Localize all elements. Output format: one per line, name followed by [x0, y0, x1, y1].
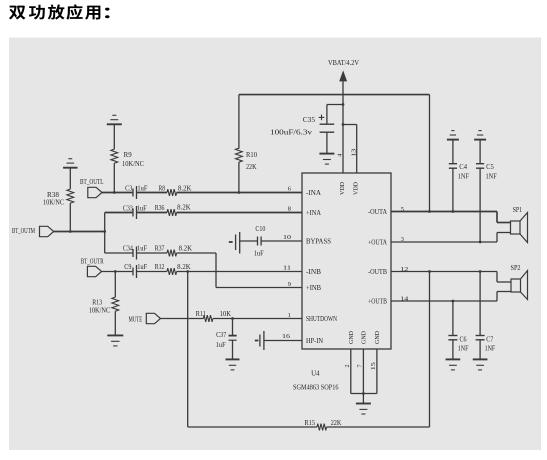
- svg-text:10: 10: [283, 234, 291, 241]
- op-amp U4 SGM4863 SOP16: [302, 173, 391, 349]
- node VBAT-C35 junction: [342, 103, 345, 106]
- resistor R12 8.2K: [167, 268, 177, 275]
- svg-text:R15: R15: [304, 420, 315, 427]
- wire to pin 16: [264, 340, 302, 342]
- wire bypass: [240, 240, 258, 242]
- wire +OUTA row: [391, 241, 497, 243]
- svg-text:1uF: 1uF: [137, 185, 147, 192]
- svg-text:VDD: VDD: [339, 182, 346, 195]
- wire feedback rail R10 to -OUTA: [239, 94, 430, 96]
- wire to pin 13: [343, 124, 357, 126]
- node R38 junction: [69, 230, 72, 233]
- svg-text:8.2K: 8.2K: [179, 245, 193, 252]
- svg-text:BT_OUTR: BT_OUTR: [81, 259, 104, 266]
- wire GND bus: [351, 393, 377, 395]
- node rail to -OUTA: [428, 210, 431, 213]
- svg-text:10K/NC: 10K/NC: [89, 308, 111, 315]
- wire MUTE row: [161, 318, 204, 320]
- resistor R36 8.2K: [167, 209, 177, 216]
- node C4 junction: [452, 210, 455, 213]
- svg-text:R36: R36: [155, 205, 165, 212]
- capacitor C4 1NF: [452, 140, 454, 164]
- svg-text:C6: C6: [460, 336, 468, 343]
- svg-text:8.2K: 8.2K: [178, 185, 192, 192]
- wire jog to SP1 bottom: [496, 233, 498, 243]
- wire GND pin 7: [362, 349, 364, 394]
- wire R15 row: [188, 426, 317, 428]
- svg-text:100uF/6.3v: 100uF/6.3v: [270, 130, 313, 137]
- ground below C7: [473, 358, 488, 360]
- wire jog to SP2 bottom: [496, 292, 498, 302]
- ground below C37: [226, 358, 240, 360]
- ground below R13: [107, 334, 123, 336]
- node R9 junction: [113, 191, 116, 194]
- capacitor C5 1NF: [479, 140, 481, 164]
- resistor R13 10K/NC: [114, 272, 116, 298]
- svg-text:11: 11: [283, 265, 291, 272]
- svg-text:22K: 22K: [331, 420, 342, 427]
- svg-text:C35: C35: [303, 116, 316, 124]
- svg-text:SGM4863 SOP16: SGM4863 SOP16: [293, 384, 339, 392]
- capacitor C33 1uF: [132, 209, 134, 217]
- svg-text:R11: R11: [196, 311, 206, 318]
- wire GND pin 15: [376, 349, 378, 394]
- wire BT_OUTM row: [54, 231, 105, 233]
- ground below C6: [446, 358, 461, 360]
- svg-text:R10: R10: [246, 152, 258, 159]
- resistor R38 10K/NC: [69, 168, 71, 189]
- svg-text:8.2K: 8.2K: [177, 205, 191, 212]
- svg-text:C10: C10: [255, 226, 266, 233]
- resistor R15 22K: [317, 424, 327, 431]
- svg-text:C3: C3: [125, 185, 133, 192]
- svg-text:-INB: -INB: [306, 269, 321, 276]
- svg-text:6: 6: [288, 186, 291, 193]
- svg-text:1uF: 1uF: [137, 246, 147, 253]
- resistor R11 10K: [203, 315, 213, 322]
- svg-text:C9: C9: [124, 264, 132, 271]
- svg-text:+OUTA: +OUTA: [368, 239, 387, 246]
- capacitor C6 1NF: [452, 301, 454, 336]
- svg-text:10K/NC: 10K/NC: [122, 161, 144, 168]
- ground (inverted) above C4: [447, 139, 459, 141]
- resistor R8 8.2K: [167, 189, 177, 196]
- svg-text:GND: GND: [361, 331, 368, 344]
- wire to pin 8: [177, 212, 302, 214]
- svg-text:1uF: 1uF: [137, 264, 147, 271]
- node C5 junction: [479, 241, 482, 244]
- svg-text:1uF: 1uF: [216, 342, 226, 349]
- capacitor C34 1uF: [132, 249, 134, 257]
- svg-text:R9: R9: [124, 152, 133, 159]
- svg-text:+INB: +INB: [306, 285, 321, 292]
- node R10 to -INA row: [238, 191, 241, 194]
- node BT_OUTM T-junction: [103, 230, 106, 233]
- wire row +INA: [105, 212, 133, 214]
- wire branch vertical: [104, 213, 106, 254]
- wire jog to SP1 top: [496, 212, 498, 223]
- svg-text:C7: C7: [486, 336, 494, 343]
- node GND bus: [362, 392, 365, 395]
- svg-text:1: 1: [288, 312, 291, 319]
- capacitor (floating plate) at BYPASS: [229, 241, 233, 243]
- node C37 junction: [231, 317, 234, 320]
- svg-text:9: 9: [288, 281, 291, 288]
- svg-text:22K: 22K: [246, 164, 257, 171]
- wire +OUTB row: [391, 300, 497, 302]
- svg-text:HP-IN: HP-IN: [306, 338, 323, 345]
- svg-text:SHUTDOWN: SHUTDOWN: [306, 316, 337, 323]
- svg-text:VDD: VDD: [353, 182, 360, 195]
- svg-text:C34: C34: [123, 246, 134, 253]
- svg-text:1NF: 1NF: [486, 174, 497, 181]
- svg-text:R12: R12: [155, 264, 165, 271]
- ground (inverted) above R38: [63, 167, 78, 169]
- svg-text:GND: GND: [374, 331, 381, 344]
- svg-text:4: 4: [337, 154, 344, 157]
- wire VBAT vertical: [342, 81, 344, 173]
- svg-text:C5: C5: [486, 164, 494, 171]
- svg-text:+OUTB: +OUTB: [368, 298, 387, 305]
- svg-text:1uF: 1uF: [137, 205, 147, 212]
- wire to pin 11: [177, 271, 302, 273]
- svg-text:BT_OUTM: BT_OUTM: [12, 228, 35, 235]
- wire R37 to +INB: [177, 252, 216, 254]
- svg-text:GND: GND: [348, 331, 355, 344]
- wire to pin 6: [177, 192, 302, 194]
- capacitor C37 1uF: [232, 319, 234, 336]
- resistor R9 10K/NC: [113, 124, 115, 149]
- wire R15 to -OUTB: [327, 426, 430, 428]
- resistor R37 8.2K: [167, 250, 177, 257]
- svg-text:SP1: SP1: [513, 207, 523, 214]
- svg-text:1NF: 1NF: [458, 174, 469, 181]
- svg-text:8.2K: 8.2K: [177, 264, 191, 271]
- svg-text:SP2: SP2: [511, 265, 522, 272]
- wire to pin 1 SHUTDOWN: [213, 318, 302, 320]
- resistor R10 22K: [238, 95, 240, 149]
- wire to pin 10: [261, 240, 302, 242]
- svg-text:BT_OUTL: BT_OUTL: [80, 179, 104, 186]
- wire GND pin 2: [350, 349, 352, 394]
- svg-text:10K/NC: 10K/NC: [43, 200, 64, 207]
- svg-text:7: 7: [357, 364, 364, 367]
- svg-text:15: 15: [370, 362, 377, 370]
- svg-text:MUTE: MUTE: [129, 316, 143, 323]
- svg-text:C33: C33: [123, 205, 134, 212]
- svg-text:+INA: +INA: [306, 210, 321, 217]
- wire C35 branch: [327, 104, 343, 106]
- node VDD branch: [342, 123, 345, 126]
- svg-text:R37: R37: [155, 246, 165, 253]
- wire -OUTB row: [391, 271, 497, 273]
- svg-text:C4: C4: [459, 164, 467, 171]
- svg-text:-OUTA: -OUTA: [368, 209, 387, 216]
- wire row -INA: [102, 192, 133, 194]
- wire rail drop to -OUTA: [429, 95, 431, 212]
- node R13 junction: [114, 270, 117, 273]
- svg-text:13: 13: [350, 149, 357, 157]
- svg-text:1NF: 1NF: [485, 345, 496, 352]
- svg-text:1uF: 1uF: [254, 250, 264, 257]
- ground below C35: [319, 153, 334, 155]
- ground below IC: [356, 403, 371, 405]
- svg-text:U4: U4: [311, 369, 320, 377]
- node C6 junction: [452, 300, 455, 303]
- node C7 junction: [479, 270, 482, 273]
- wire jog to SP2 top: [496, 272, 498, 283]
- wire row C34: [105, 252, 133, 254]
- capacitor C10 1uF: [257, 237, 259, 246]
- svg-text:8: 8: [288, 206, 291, 213]
- wire -OUTA row: [391, 211, 497, 213]
- svg-text:BYPASS: BYPASS: [306, 238, 331, 245]
- svg-text:R13: R13: [92, 300, 103, 307]
- ground (inverted) above R9: [107, 123, 122, 125]
- ground (inverted) above C5: [474, 139, 486, 141]
- capacitor (floating plate) at HP-IN: [255, 340, 259, 342]
- svg-text:VBAT/4.2V: VBAT/4.2V: [328, 60, 359, 67]
- capacitor C35: [320, 123, 335, 125]
- svg-text:16: 16: [282, 333, 290, 340]
- svg-text:1NF: 1NF: [458, 345, 469, 352]
- svg-text:-OUTB: -OUTB: [368, 269, 387, 276]
- node R15 tap: [186, 270, 189, 273]
- svg-text:-INA: -INA: [306, 190, 321, 197]
- title 双功放应用:: [9, 6, 25, 20]
- wire row -INB: [102, 271, 133, 273]
- node R15 riser: [428, 270, 431, 273]
- svg-text:10K: 10K: [220, 311, 231, 318]
- capacitor C3 1uF: [132, 189, 134, 197]
- svg-text:C37: C37: [216, 332, 227, 339]
- svg-text:2: 2: [344, 364, 351, 367]
- wire R12-tap drop: [187, 272, 189, 428]
- capacitor C9 1uF: [132, 268, 134, 276]
- svg-text:R38: R38: [47, 192, 60, 199]
- svg-text:R8: R8: [159, 185, 166, 192]
- capacitor C7 1NF: [479, 272, 481, 336]
